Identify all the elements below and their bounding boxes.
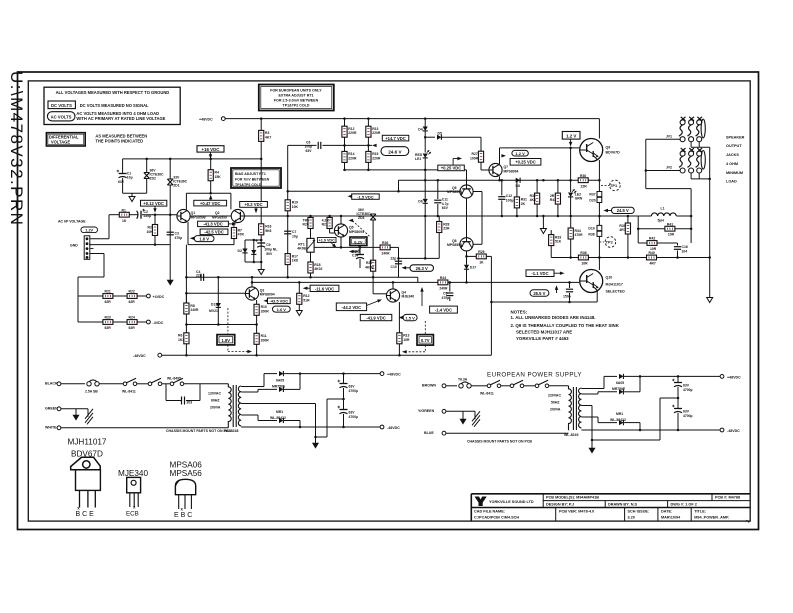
svg-text:YORKVILLE PART # 4463: YORKVILLE PART # 4463 xyxy=(516,336,569,341)
svg-text:MJE340: MJE340 xyxy=(402,295,415,299)
+48VDC terminal xyxy=(720,375,724,379)
svg-text:C14: C14 xyxy=(352,254,358,258)
svg-text:47R: 47R xyxy=(238,233,245,237)
svg-text:TITLE:: TITLE: xyxy=(694,509,706,513)
svg-text:DC VOLTS MEASURED NO SIGNAL: DC VOLTS MEASURED NO SIGNAL xyxy=(80,103,149,108)
svg-text:+0.12 VDC: +0.12 VDC xyxy=(143,201,164,206)
svg-text:1K8: 1K8 xyxy=(292,259,298,263)
package MJH11017 / BDV67D (TO-218) xyxy=(68,438,107,519)
svg-text:51K: 51K xyxy=(555,240,562,244)
svg-text:MPS8094: MPS8094 xyxy=(260,293,275,297)
svg-text:63V: 63V xyxy=(349,385,356,389)
svg-text:220R: 220R xyxy=(348,156,357,160)
svg-text:200R: 200R xyxy=(261,338,270,342)
capacitor C7 10u xyxy=(284,231,291,234)
svg-text:DWG #: 1 OF 2: DWG #: 1 OF 2 xyxy=(671,502,697,506)
svg-text:22R: 22R xyxy=(443,227,450,231)
svg-text:0.7V: 0.7V xyxy=(421,338,430,343)
resistor R41 10R parallel xyxy=(637,216,639,243)
svg-text:MR1: MR1 xyxy=(616,412,623,416)
svg-text:-43.5 VDC: -43.5 VDC xyxy=(269,299,288,304)
svg-text:200VA: 200VA xyxy=(550,408,561,412)
fuse T6.3A xyxy=(459,382,471,388)
svg-text:MAR\10\94: MAR\10\94 xyxy=(661,516,681,520)
resistor R7 below Q2 xyxy=(233,222,235,227)
diode D8 xyxy=(516,178,520,183)
svg-text:B C E: B C E xyxy=(76,511,95,518)
differential voltage key xyxy=(46,133,147,146)
svg-text:+4VDC: +4VDC xyxy=(153,295,165,299)
svg-text:PCB #: M4788: PCB #: M4788 xyxy=(715,496,740,500)
svg-text:200VA: 200VA xyxy=(210,406,221,410)
value box +1.9 VDC xyxy=(317,238,336,243)
svg-text:240R: 240R xyxy=(382,251,391,255)
svg-text:J#2: J#2 xyxy=(666,166,672,170)
vertical feedback wire xyxy=(287,145,289,277)
svg-text:470p: 470p xyxy=(442,296,450,300)
svg-text:MJE340: MJE340 xyxy=(118,469,148,478)
svg-text:10R: 10R xyxy=(581,262,588,266)
svg-text:-4VDC: -4VDC xyxy=(153,321,164,325)
svg-text:3.20: 3.20 xyxy=(628,516,635,520)
svg-text:10R: 10R xyxy=(668,233,675,237)
svg-text:51R: 51R xyxy=(303,298,310,302)
resistor R21b xyxy=(329,216,331,218)
svg-text:SELECTED MJH11017 ARE: SELECTED MJH11017 ARE xyxy=(516,330,572,335)
svg-text:2. Q9 IS THERMALLY COUPLED TO: 2. Q9 IS THERMALLY COUPLED TO THE HEAT S… xyxy=(511,323,620,328)
diode D19 + resistor R38 column xyxy=(597,225,602,230)
svg-text:R2: R2 xyxy=(148,225,152,229)
value box -42.5 VDC xyxy=(200,229,228,235)
svg-text:T6.3A: T6.3A xyxy=(458,378,468,382)
svg-text:10µ: 10µ xyxy=(292,235,298,239)
svg-text:R3: R3 xyxy=(265,131,269,135)
Q9 emitter down xyxy=(598,160,600,191)
resistor R18 4K02 xyxy=(308,262,313,273)
svg-text:TP1: TP1 xyxy=(610,183,618,188)
wire Q2 base right xyxy=(244,215,287,217)
svg-text:MV21: MV21 xyxy=(209,309,218,313)
svg-text:DRAWN BY: N.S: DRAWN BY: N.S xyxy=(608,502,638,506)
wire pin5 path to R21 xyxy=(90,253,104,255)
value box 4.7V double xyxy=(350,237,367,246)
resistor R14 220R xyxy=(342,151,347,162)
LED LE1 RED xyxy=(423,150,431,158)
switch WL-8411 xyxy=(123,378,137,385)
resistor R3 4K7 xyxy=(260,145,262,223)
svg-text:1. ALL UNMARKED DIODES ARE IN4: 1. ALL UNMARKED DIODES ARE IN4148. xyxy=(511,315,596,320)
svg-text:D20: D20 xyxy=(589,199,595,203)
wire xyxy=(646,138,680,140)
LED LE2 GRN xyxy=(570,148,572,192)
capacitor C14 470u xyxy=(359,247,361,254)
svg-text:4R7: 4R7 xyxy=(650,262,656,266)
svg-text:R21: R21 xyxy=(322,223,328,227)
gnd bus xyxy=(90,244,170,246)
svg-text:R21: R21 xyxy=(105,290,111,294)
svg-text:SELECTED: SELECTED xyxy=(606,290,626,294)
svg-text:C5: C5 xyxy=(443,291,447,295)
value box +16 VDC xyxy=(197,146,224,152)
svg-text:GREEN: GREEN xyxy=(45,407,58,411)
resistor R22 62R xyxy=(127,294,137,299)
svg-text:R41: R41 xyxy=(667,222,673,226)
svg-text:1.5 V: 1.5 V xyxy=(405,315,415,320)
svg-text:220R: 220R xyxy=(372,131,381,135)
test point TP2 xyxy=(605,237,616,248)
transistor Q10 MJH11017 xyxy=(580,270,603,293)
svg-text:EUROPEAN POWER SUPPLY: EUROPEAN POWER SUPPLY xyxy=(487,372,582,379)
svg-text:ZD2: ZD2 xyxy=(150,177,157,181)
svg-text:62R: 62R xyxy=(105,326,112,330)
wire under R14 R15 xyxy=(345,169,467,171)
border frame inner xyxy=(28,81,750,521)
svg-text:MPS8594: MPS8594 xyxy=(447,243,462,247)
svg-text:MINIMUM: MINIMUM xyxy=(726,171,743,175)
resistor R36 10R xyxy=(578,255,588,260)
value box 1.8V double xyxy=(217,335,235,345)
capacitor C6 100u xyxy=(288,144,317,146)
svg-text:YORKVILLE SOUND LTD: YORKVILLE SOUND LTD xyxy=(489,500,534,504)
resistor R13 220R xyxy=(367,119,369,127)
svg-text:BROWN: BROWN xyxy=(422,384,436,388)
capacitor C5 470p xyxy=(449,282,451,291)
svg-text:22R: 22R xyxy=(581,184,588,188)
oval 26.5 V xyxy=(530,290,549,297)
svg-text:MPS8594: MPS8594 xyxy=(447,190,462,194)
svg-text:WL-8411: WL-8411 xyxy=(122,390,136,394)
svg-text:FOR 2.5-3.0mV BETWEEN: FOR 2.5-3.0mV BETWEEN xyxy=(274,99,319,103)
svg-text:M94_POWER_AMP.: M94_POWER_AMP. xyxy=(694,516,729,520)
value box -41.9 VDC xyxy=(360,314,392,320)
vertical to Q3 xyxy=(185,245,187,356)
svg-text:TP1&TP2 COLD: TP1&TP2 COLD xyxy=(235,183,262,187)
svg-text:CHASSIS MOUNT PARTS NOT ON PCB: CHASSIS MOUNT PARTS NOT ON PCB xyxy=(166,429,231,433)
oval 1.6 V xyxy=(190,237,195,240)
svg-text:GRN: GRN xyxy=(575,197,583,201)
svg-text:R27: R27 xyxy=(472,152,478,156)
capacitor C9 100u xyxy=(255,239,265,247)
svg-text:-48VDC: -48VDC xyxy=(133,354,146,358)
svg-text:R30: R30 xyxy=(580,174,586,178)
value box -11.6 VDC xyxy=(303,287,308,290)
svg-text:-48VDC: -48VDC xyxy=(387,426,400,430)
transistor Q7 xyxy=(489,163,502,176)
resistor 2R7 R43 xyxy=(557,180,559,193)
svg-text:62R: 62R xyxy=(129,326,136,330)
resistor R26 240R xyxy=(380,245,390,250)
capacitor C10 xyxy=(395,261,402,264)
svg-text:R20: R20 xyxy=(303,223,309,227)
svg-text:WHITE: WHITE xyxy=(45,426,57,430)
svg-text:4700µ: 4700µ xyxy=(683,388,693,392)
svg-text:15K: 15K xyxy=(215,175,222,179)
resistor R37 + diode D20 column xyxy=(597,192,602,197)
svg-text:EXTRA ADJUST RT1: EXTRA ADJUST RT1 xyxy=(278,94,313,98)
svg-text:470p: 470p xyxy=(175,236,183,240)
resistor R24 62R xyxy=(127,320,137,325)
border frame outer xyxy=(18,72,759,530)
diodes D2 D3 parallel xyxy=(245,239,261,241)
svg-text:4K3: 4K3 xyxy=(530,198,536,202)
resistor R23 62R xyxy=(78,321,102,323)
svg-text:LOAD: LOAD xyxy=(726,180,737,184)
value box 0.7V double xyxy=(417,335,433,346)
svg-text:6A05: 6A05 xyxy=(616,381,624,385)
svg-text:C3: C3 xyxy=(175,232,179,236)
svg-text:D13: D13 xyxy=(211,303,217,307)
svg-text:+48VDC: +48VDC xyxy=(199,118,213,122)
svg-text:R26: R26 xyxy=(382,241,388,245)
svg-text:470R: 470R xyxy=(575,233,584,237)
resistor R8 240R xyxy=(185,293,187,303)
bottom rail xyxy=(241,426,380,428)
value box 1.2 V top xyxy=(562,132,580,140)
value box -43.5 VDC xyxy=(263,299,268,302)
svg-text:D5: D5 xyxy=(438,131,442,135)
svg-text:4R7: 4R7 xyxy=(619,228,625,232)
svg-text:R23: R23 xyxy=(105,316,111,320)
svg-text:+0.47 VDC: +0.47 VDC xyxy=(200,201,221,206)
resistor R42 10R xyxy=(638,242,647,244)
Q7 collector up xyxy=(499,148,501,164)
value box +0.47 VDC xyxy=(194,200,227,206)
svg-text:10µ: 10µ xyxy=(127,176,133,180)
-48VDC terminal xyxy=(380,425,384,429)
wire Q4 base from bias xyxy=(373,293,386,295)
wire Q9 base row xyxy=(500,147,580,149)
resistor R12 51R to ground xyxy=(298,282,300,293)
Q9 collector drop xyxy=(598,119,600,139)
package MPSA06 / MPSA56 (TO-92) xyxy=(170,461,203,520)
trimmer RT1 xyxy=(307,238,314,252)
Q10 base xyxy=(579,281,584,282)
svg-text:+14.7 VDC: +14.7 VDC xyxy=(385,136,406,141)
svg-text:6.2V: 6.2V xyxy=(354,239,363,244)
ground xyxy=(258,270,264,275)
svg-text:PCB VER: M478-4.0: PCB VER: M478-4.0 xyxy=(559,509,594,513)
filter cap C 4700u xyxy=(343,374,345,384)
Q10 emitter down xyxy=(596,291,598,303)
diode D13 MV21 xyxy=(217,277,219,303)
diode D5 stub xyxy=(424,136,427,139)
value box +14.7 VDC xyxy=(382,135,409,141)
value box +0.25 VDC xyxy=(438,165,465,171)
svg-text:-48VDC: -48VDC xyxy=(727,429,740,433)
wire Q3 base xyxy=(186,292,245,294)
svg-text:MR1: MR1 xyxy=(276,410,283,414)
fuse F1 2.5A SB xyxy=(87,380,99,386)
svg-text:OUTPUT: OUTPUT xyxy=(726,144,742,148)
value box -41.3 VDC xyxy=(198,221,229,226)
svg-text:2K: 2K xyxy=(521,202,526,206)
svg-text:LE1: LE1 xyxy=(415,157,421,161)
svg-text:+16 VDC: +16 VDC xyxy=(202,147,221,152)
svg-text:1.2 V: 1.2 V xyxy=(566,134,576,139)
resistor R16 5K6 xyxy=(259,224,264,235)
svg-text:SCH ISSUE:: SCH ISSUE: xyxy=(628,509,650,513)
svg-text:WL-8249: WL-8249 xyxy=(564,433,578,437)
svg-text:22p: 22p xyxy=(391,257,397,261)
diode MR750E xyxy=(241,391,258,393)
svg-text:220R: 220R xyxy=(348,131,357,135)
resistor R32 xyxy=(536,180,538,193)
svg-text:C:\PCAD\PCB\ C\M4.SCH: C:\PCAD\PCB\ C\M4.SCH xyxy=(474,516,519,520)
capacitor C12 xyxy=(501,180,503,195)
svg-text:+1.9 VDC: +1.9 VDC xyxy=(319,239,335,243)
resistor R11 200R xyxy=(256,325,258,334)
svg-text:50HZ: 50HZ xyxy=(551,401,560,405)
bottom loop wire xyxy=(491,301,597,303)
dashed annotation xyxy=(227,308,229,335)
svg-text:-44.2 VDC: -44.2 VDC xyxy=(342,305,362,310)
filter cap C2 4700u xyxy=(338,406,348,414)
svg-text:4 OHM: 4 OHM xyxy=(726,162,738,166)
svg-text:4700µ: 4700µ xyxy=(349,415,359,419)
svg-text:R25: R25 xyxy=(366,261,372,265)
value box +0.2 VDC xyxy=(240,202,268,208)
capacitor C16 104 xyxy=(674,247,681,250)
svg-text:CAD FILE NAME:: CAD FILE NAME: xyxy=(474,509,505,513)
svg-text:THE POINTS INDICATED: THE POINTS INDICATED xyxy=(95,139,143,144)
+48VDC terminal xyxy=(380,372,384,376)
svg-text:C7: C7 xyxy=(292,230,296,234)
svg-text:Q9: Q9 xyxy=(606,145,611,149)
svg-text:220R: 220R xyxy=(372,156,381,160)
svg-text:D4: D4 xyxy=(418,128,422,132)
secondary wires + diodes xyxy=(581,388,604,390)
svg-text:10K: 10K xyxy=(292,205,299,209)
value box -1.1 VDC xyxy=(526,270,554,277)
svg-text:VOLTAGE: VOLTAGE xyxy=(51,140,70,145)
svg-text:R29: R29 xyxy=(478,250,484,254)
switch WL-8411 xyxy=(487,380,501,387)
resistor R4 15K xyxy=(210,159,212,170)
diode D4 xyxy=(424,119,426,127)
oval 24.6 V xyxy=(381,147,409,156)
capacitor 203 xyxy=(181,397,183,405)
svg-text:5µH: 5µH xyxy=(658,219,665,223)
svg-text:BDV67D: BDV67D xyxy=(606,151,621,155)
svg-text:L1: L1 xyxy=(661,206,665,210)
resistor R27 100R xyxy=(441,136,481,138)
svg-text:R22: R22 xyxy=(129,290,135,294)
resistor R12 220R xyxy=(344,119,346,127)
svg-text:63V: 63V xyxy=(118,180,125,184)
oval 1.2 V xyxy=(512,150,528,156)
mid wire xyxy=(186,324,256,326)
svg-text:R42: R42 xyxy=(649,237,655,241)
svg-text:-42.5 VDC: -42.5 VDC xyxy=(204,230,224,235)
svg-text:10K: 10K xyxy=(147,230,154,234)
svg-text:100µ: 100µ xyxy=(506,198,514,202)
resistor R20 xyxy=(310,216,312,218)
value box -1.4 VDC xyxy=(430,306,458,313)
center tap ground xyxy=(241,403,315,405)
transformer T2 WL-8249 xyxy=(569,386,572,430)
center tap ground xyxy=(581,405,592,407)
resistor R19 10K xyxy=(285,200,290,211)
svg-text:1.2 V: 1.2 V xyxy=(515,151,525,156)
capacitor C13 150p xyxy=(569,282,571,288)
ground stub mid xyxy=(542,216,544,229)
svg-text:4K0B: 4K0B xyxy=(297,247,306,251)
transistor Q2 xyxy=(231,209,244,222)
svg-text:63V: 63V xyxy=(306,149,313,153)
svg-text:-1.1 VDC: -1.1 VDC xyxy=(531,271,548,276)
svg-text:1.2V: 1.2V xyxy=(85,229,93,233)
svg-text:4K7: 4K7 xyxy=(265,136,271,140)
svg-text:4K02: 4K02 xyxy=(314,267,322,271)
resistor R33 51K xyxy=(550,230,552,235)
wire Q6 base right xyxy=(473,191,482,193)
value box +0.25 VDC xyxy=(510,159,541,166)
svg-text:5K6: 5K6 xyxy=(265,229,271,233)
svg-text:200R: 200R xyxy=(261,309,270,313)
svg-text:D8: D8 xyxy=(516,184,520,188)
svg-text:MPSA56: MPSA56 xyxy=(170,469,203,478)
svg-text:J#1: J#1 xyxy=(666,134,672,138)
svg-text:203: 203 xyxy=(187,401,193,405)
zener ZD2 xyxy=(144,173,150,179)
svg-text:AC I/P VOLTAGE: AC I/P VOLTAGE xyxy=(58,219,86,223)
svg-text:TP2: TP2 xyxy=(606,240,614,245)
resistor R10 200R xyxy=(256,300,258,304)
svg-text:-1.4 VDC: -1.4 VDC xyxy=(435,308,452,313)
svg-text:120VAC: 120VAC xyxy=(208,392,221,396)
svg-text:FOR 7mV BETWEEN: FOR 7mV BETWEEN xyxy=(235,178,270,182)
svg-text:D6: D6 xyxy=(418,200,422,204)
svg-text:-11.6 VDC: -11.6 VDC xyxy=(315,286,334,291)
secondary wires + diodes xyxy=(241,386,264,388)
svg-text:GND: GND xyxy=(70,243,78,247)
svg-text:104: 104 xyxy=(682,250,688,254)
svg-text:D19: D19 xyxy=(588,226,594,230)
diode D17 xyxy=(466,256,468,264)
resistor R6 1K3 xyxy=(184,333,189,344)
svg-text:+0.2 VDC: +0.2 VDC xyxy=(244,202,262,207)
resistor R17 1K8 xyxy=(285,254,290,265)
zener ZD1 xyxy=(169,159,171,179)
svg-text:R24: R24 xyxy=(129,316,135,320)
svg-text:U:\M478V32.PRN: U:\M478V32.PRN xyxy=(7,71,26,226)
svg-text:ALL VOLTAGES MEASURED WITH RES: ALL VOLTAGES MEASURED WITH RESPECT TO GR… xyxy=(56,90,170,95)
base line wire xyxy=(417,277,419,282)
svg-text:MPS8094: MPS8094 xyxy=(504,169,519,173)
svg-text:DC VOLTS: DC VOLTS xyxy=(51,103,72,108)
package MJE340 (TO-126) xyxy=(118,469,148,518)
svg-text:50V: 50V xyxy=(266,252,273,256)
svg-text:240R: 240R xyxy=(439,286,448,290)
svg-text:24.5 V: 24.5 V xyxy=(617,208,629,213)
svg-text:E B C: E B C xyxy=(174,512,192,519)
wire xyxy=(61,383,85,385)
dashed annotation xyxy=(424,321,426,335)
capacitor C4 22p xyxy=(201,274,204,281)
svg-text:ZD1: ZD1 xyxy=(173,184,180,188)
svg-text:DATE:: DATE: xyxy=(661,509,672,513)
transformer T1 WL-8248 xyxy=(228,384,231,428)
svg-text:C10: C10 xyxy=(391,265,397,269)
svg-text:R37: R37 xyxy=(589,193,595,197)
svg-text:1K3: 1K3 xyxy=(178,338,184,342)
Yorkville logo xyxy=(475,497,487,507)
svg-text:6A05: 6A05 xyxy=(276,379,284,383)
svg-text:62R: 62R xyxy=(105,300,112,304)
wire xyxy=(100,383,124,385)
transistor Q9 BDV67D xyxy=(580,139,603,162)
svg-text:1K: 1K xyxy=(122,219,127,223)
